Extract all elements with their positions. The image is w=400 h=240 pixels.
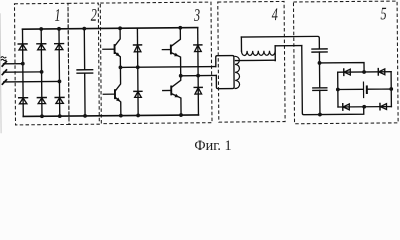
node C3 bottom bus <box>318 113 322 117</box>
transistor Q3 <box>162 28 181 76</box>
diode VD1 <box>18 44 27 50</box>
block box 1 (rectifier unit) <box>14 3 69 125</box>
wire: DC bottom rail <box>23 115 198 117</box>
scan edge artifact <box>0 14 1 133</box>
svg-text:4: 4 <box>272 5 279 25</box>
node phase3-column C <box>58 80 62 84</box>
freewheel diode D9 top right <box>194 28 202 76</box>
capacitor C1 lead lower <box>84 74 86 116</box>
inductor L1 lead right <box>274 46 276 61</box>
phase 1 tick <box>2 62 6 67</box>
wire: mid link to block5 <box>275 45 302 47</box>
transformer T1 secondary winding <box>235 56 240 88</box>
wire: bridge mid left <box>338 88 363 90</box>
node top rail Q1 collector <box>118 26 122 30</box>
wire: DC top rail <box>22 28 197 30</box>
AC symbol <box>1 57 6 61</box>
diode VD5 <box>37 98 46 104</box>
wire: node to bridge top <box>320 63 365 73</box>
wire: block5 left loop <box>302 45 364 115</box>
node mid rail A emitter <box>119 65 123 69</box>
wire: rectifier column C <box>58 29 61 116</box>
diode VD13 bottom-left <box>343 104 350 110</box>
svg-text:3: 3 <box>193 6 200 26</box>
wire: secondary top lead <box>235 59 275 61</box>
transformer T1 primary winding <box>216 56 234 89</box>
wire: bridge mid right <box>368 88 391 90</box>
node bridge left mid <box>336 88 340 92</box>
wire: bridge left side <box>337 72 339 107</box>
block box 3 (inverter unit) <box>100 2 212 124</box>
capacitor C1 lead upper <box>83 29 85 69</box>
diode VD3 <box>55 44 64 50</box>
diode VD6 <box>55 97 64 103</box>
transistor Q2 <box>103 67 121 115</box>
node mid rail B diode <box>196 74 200 78</box>
diode VD12 top-right <box>378 69 385 75</box>
AC input line phase 1 <box>3 63 22 65</box>
freewheel diode D7 top left <box>133 28 141 67</box>
node bridge bottom center <box>362 105 366 109</box>
node bridge right mid <box>389 87 393 91</box>
node bottom rail Q2 emitter <box>119 114 123 118</box>
capacitor C3 <box>313 88 327 91</box>
svg-text:Фиг. 1: Фиг. 1 <box>194 138 231 153</box>
freewheel diode D10 bottom right <box>194 76 202 115</box>
node C1 top <box>82 27 86 31</box>
wire: C3 to bottom bus <box>319 90 321 114</box>
inductor L1 lead left <box>240 37 242 51</box>
AC input line phase 3 <box>4 80 60 82</box>
wire: bridge bottom row <box>338 106 391 108</box>
capacitor C4 <box>363 82 366 98</box>
block box 4 (matching transformer unit) <box>218 1 285 122</box>
node phase2-column B <box>40 70 44 74</box>
wire: rectifier column A <box>21 29 24 116</box>
node bottom rail Q4 emitter <box>179 113 183 117</box>
node top rail column B <box>39 27 43 31</box>
wire: bridge top row <box>338 71 391 73</box>
phase 3 tick <box>2 80 6 85</box>
node phase1-column A <box>21 62 25 66</box>
node bottom rail column B <box>40 114 44 118</box>
block box 2 (filter capacitor unit) <box>68 3 99 124</box>
inductor L1 <box>241 51 275 56</box>
node mid rail B emitter <box>179 74 183 78</box>
wire: node to C3 <box>319 63 321 87</box>
phase 2 tick <box>2 70 6 75</box>
svg-text:1: 1 <box>54 6 60 26</box>
node bridge top center <box>362 70 366 74</box>
diode VD4 <box>19 98 28 104</box>
wire: inverter mid rail B <box>181 74 217 76</box>
wire: bridge right side <box>390 72 392 107</box>
node top rail Q3 collector <box>178 26 182 30</box>
block box 5 (output rectifier unit) <box>293 1 398 124</box>
transistor Q4 <box>163 76 181 115</box>
capacitor C1 <box>77 70 93 73</box>
node mid rail A diode <box>136 65 140 69</box>
node C2 junction <box>318 61 322 65</box>
capacitor C2 <box>312 49 327 52</box>
node top rail column C <box>57 27 61 31</box>
wire: top link to block5 <box>241 36 319 49</box>
freewheel diode D8 bottom left <box>134 67 142 115</box>
diode VD2 <box>37 44 46 50</box>
node bottom rail diode D8 <box>136 114 140 118</box>
svg-text:5: 5 <box>380 4 387 24</box>
diode VD11 top-left <box>344 69 351 75</box>
diode VD14 bottom-right <box>380 103 387 109</box>
wire: rectifier column B <box>40 29 43 116</box>
node C1 bottom <box>83 114 87 118</box>
node bottom rail column C <box>58 114 62 118</box>
transistor Q1 <box>103 28 121 67</box>
svg-text:2: 2 <box>91 6 98 26</box>
wire: inverter mid rail A <box>120 66 215 69</box>
wire: C2 to node <box>318 52 320 63</box>
AC input line phase 2 <box>4 71 42 73</box>
